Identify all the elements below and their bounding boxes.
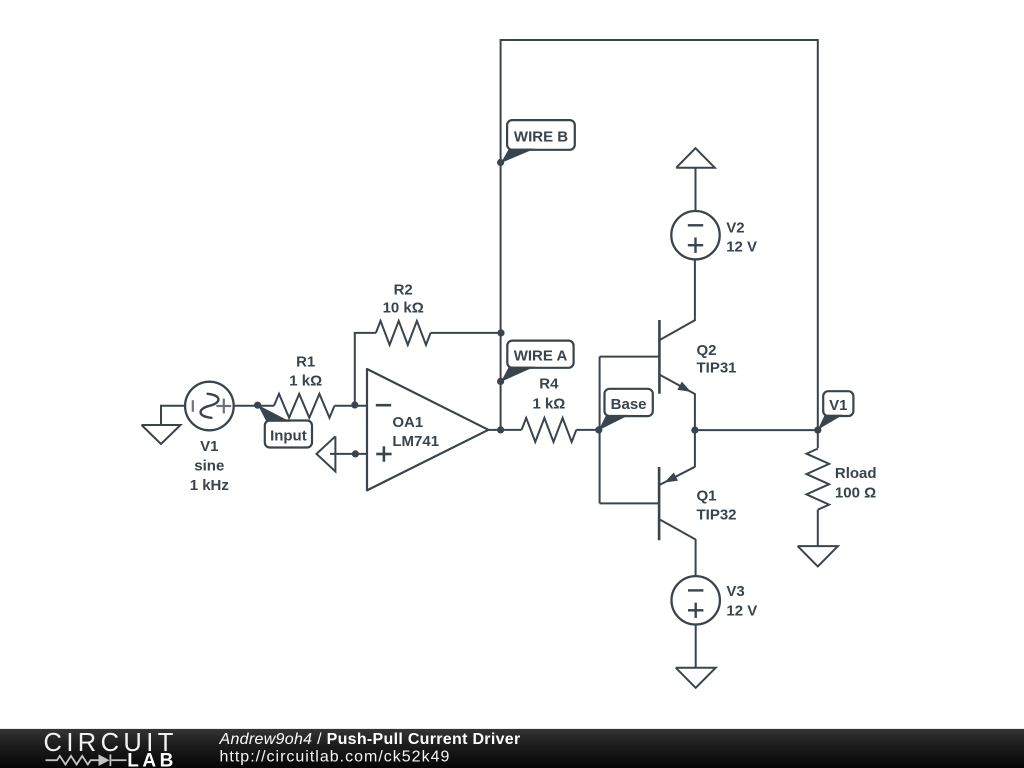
- svg-text:12 V: 12 V: [726, 602, 757, 619]
- svg-text:100 Ω: 100 Ω: [835, 484, 876, 501]
- svg-text:Andrew9oh4 / Push-Pull Current: Andrew9oh4 / Push-Pull Current Driver: [219, 731, 521, 748]
- svg-text:WIRE A: WIRE A: [514, 348, 568, 365]
- svg-text:V1: V1: [200, 438, 218, 455]
- svg-text:12 V: 12 V: [726, 239, 757, 256]
- svg-text:10 kΩ: 10 kΩ: [383, 300, 424, 317]
- svg-text:sine: sine: [194, 457, 224, 474]
- svg-text:V1: V1: [829, 397, 847, 414]
- svg-text:1 kΩ: 1 kΩ: [289, 373, 322, 390]
- svg-text:OA1: OA1: [392, 414, 423, 431]
- svg-text:LAB: LAB: [127, 751, 177, 768]
- svg-text:Base: Base: [611, 396, 647, 413]
- svg-text:http://circuitlab.com/ck52k49: http://circuitlab.com/ck52k49: [220, 749, 451, 766]
- svg-text:V3: V3: [726, 583, 744, 600]
- svg-text:V2: V2: [726, 220, 744, 237]
- svg-text:Q1: Q1: [697, 487, 717, 504]
- svg-text:TIP31: TIP31: [697, 360, 737, 377]
- svg-text:TIP32: TIP32: [697, 506, 737, 523]
- svg-text:1 kHz: 1 kHz: [190, 477, 229, 494]
- svg-text:1 kΩ: 1 kΩ: [532, 395, 565, 412]
- svg-text:Rload: Rload: [835, 465, 877, 482]
- svg-text:R1: R1: [296, 353, 315, 370]
- svg-text:WIRE B: WIRE B: [514, 128, 568, 145]
- svg-text:LM741: LM741: [392, 433, 439, 450]
- svg-text:R4: R4: [539, 376, 559, 393]
- svg-text:R2: R2: [394, 282, 413, 299]
- svg-text:Input: Input: [270, 427, 307, 444]
- svg-text:Q2: Q2: [697, 342, 717, 359]
